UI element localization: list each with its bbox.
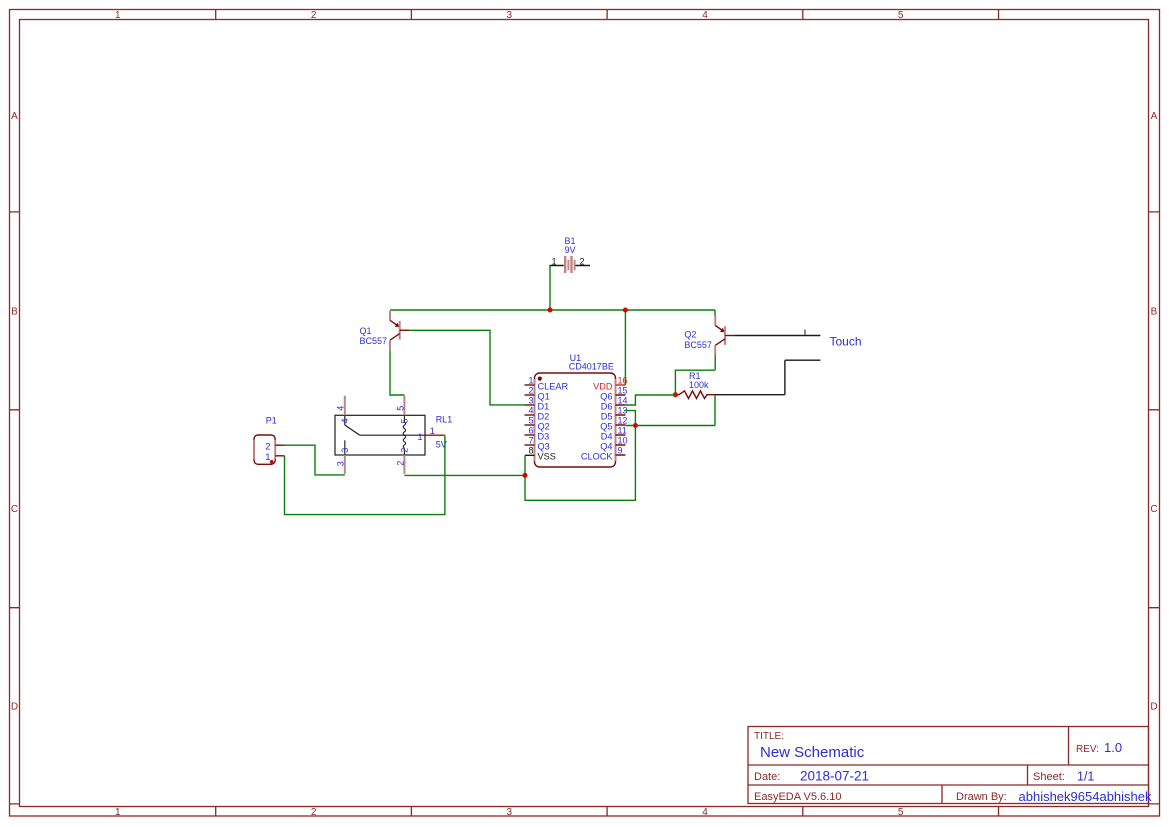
row labels left	[11, 111, 18, 712]
pin 5	[525, 424, 535, 426]
svg-text:3: 3	[528, 395, 533, 405]
svg-text:C: C	[11, 504, 18, 515]
junction q5	[633, 423, 638, 428]
svg-text:New Schematic: New Schematic	[760, 744, 865, 761]
svg-text:B: B	[11, 306, 18, 317]
row ticks left	[10, 212, 20, 804]
pin 8	[525, 454, 535, 456]
column labels top	[115, 10, 904, 21]
svg-text:A: A	[11, 111, 18, 122]
title block	[748, 727, 1152, 805]
svg-text:1: 1	[418, 432, 423, 442]
svg-text:2018-07-21: 2018-07-21	[800, 769, 869, 784]
svg-text:2: 2	[265, 442, 270, 453]
svg-text:CLEAR: CLEAR	[538, 382, 569, 392]
svg-text:D3: D3	[538, 432, 550, 442]
svg-text:VDD: VDD	[593, 382, 613, 392]
svg-text:D: D	[11, 701, 18, 712]
relay RL1	[335, 395, 452, 474]
svg-text:EasyEDA V5.6.10: EasyEDA V5.6.10	[754, 791, 841, 803]
wire Q1 base to U1 pin3	[409, 330, 524, 405]
svg-text:11: 11	[618, 425, 627, 435]
svg-text:9: 9	[618, 445, 623, 455]
wire battery drop	[549, 266, 551, 311]
touch plate 1	[735, 335, 821, 337]
svg-text:4: 4	[528, 405, 533, 415]
svg-text:1: 1	[265, 452, 270, 463]
svg-text:abhishek9654abhishek: abhishek9654abhishek	[1019, 789, 1152, 804]
junction R1 left	[673, 392, 678, 397]
wire pin13 stub	[624, 411, 635, 426]
pins 15..9	[616, 395, 626, 455]
svg-text:2: 2	[528, 385, 533, 395]
svg-text:9V: 9V	[565, 245, 576, 255]
wire pin14 jog	[625, 395, 675, 405]
svg-text:Q3: Q3	[538, 442, 550, 452]
svg-text:1: 1	[528, 375, 533, 385]
svg-text:B: B	[1151, 306, 1158, 317]
wire relay pin3 to P1 pin2	[285, 445, 345, 475]
svg-text:7: 7	[528, 435, 533, 445]
svg-text:Q1: Q1	[360, 326, 372, 336]
wire down to vss net	[525, 426, 635, 501]
transistor Q2	[684, 310, 734, 355]
svg-text:BC557: BC557	[360, 336, 388, 346]
svg-text:14: 14	[618, 395, 628, 405]
junction vss	[523, 473, 528, 478]
svg-text:3: 3	[507, 807, 513, 818]
svg-text:2: 2	[400, 448, 410, 453]
svg-text:Q1: Q1	[538, 392, 550, 402]
svg-text:Q2: Q2	[684, 330, 696, 340]
svg-text:4: 4	[336, 406, 346, 411]
svg-text:1: 1	[115, 10, 121, 21]
pin 2	[525, 394, 535, 396]
svg-text:Touch: Touch	[830, 335, 862, 349]
svg-text:D2: D2	[538, 412, 550, 422]
column ticks top	[216, 10, 999, 20]
svg-text:D4: D4	[601, 432, 613, 442]
battery B1	[550, 236, 591, 273]
column labels bottom	[115, 807, 904, 818]
wire R1 right down	[714, 395, 716, 426]
svg-text:D6: D6	[601, 402, 613, 412]
wire pin16 up	[624, 310, 626, 385]
svg-text:A: A	[1151, 111, 1158, 122]
pin 3	[525, 404, 535, 406]
svg-text:2: 2	[395, 461, 405, 466]
svg-text:Sheet:: Sheet:	[1033, 771, 1065, 783]
svg-text:12: 12	[618, 415, 628, 425]
svg-text:8: 8	[528, 445, 533, 455]
svg-text:4: 4	[340, 418, 350, 423]
wire pin12 Q5	[625, 425, 715, 427]
svg-text:BC557: BC557	[684, 340, 712, 350]
junction battery/rail	[548, 308, 553, 313]
svg-text:D1: D1	[538, 402, 550, 412]
junction pin16/rail	[623, 308, 628, 313]
svg-text:3: 3	[507, 10, 513, 21]
svg-text:15: 15	[618, 385, 628, 395]
row ticks right	[1149, 212, 1160, 804]
row labels right	[1150, 111, 1157, 712]
wire top rail	[390, 309, 715, 311]
svg-text:P1: P1	[266, 415, 277, 425]
svg-text:C: C	[1150, 504, 1157, 515]
pin 7	[525, 444, 535, 446]
svg-text:1: 1	[115, 807, 121, 818]
wire Q1 collector to relay pin5	[390, 350, 404, 395]
svg-text:TITLE:: TITLE:	[754, 731, 784, 742]
transistor Q1	[360, 311, 410, 351]
svg-text:REV:: REV:	[1076, 744, 1099, 755]
resistor R1	[675, 371, 715, 399]
svg-text:5: 5	[898, 807, 904, 818]
svg-text:Q6: Q6	[600, 392, 612, 402]
svg-text:Q5: Q5	[600, 422, 612, 432]
svg-text:5: 5	[400, 418, 410, 423]
pin 16	[616, 384, 626, 386]
touch plate 2	[715, 360, 820, 395]
svg-text:VSS: VSS	[538, 452, 556, 462]
svg-text:CLOCK: CLOCK	[581, 452, 614, 462]
svg-text:10: 10	[618, 435, 628, 445]
pin 4	[525, 414, 535, 416]
svg-text:Q2: Q2	[538, 422, 550, 432]
svg-text:Drawn By:: Drawn By:	[956, 791, 1007, 803]
svg-text:2: 2	[311, 10, 317, 21]
pin 1	[525, 384, 535, 386]
svg-text:5: 5	[395, 406, 405, 411]
pin 6	[525, 434, 535, 436]
svg-text:1.0: 1.0	[1104, 740, 1122, 755]
svg-text:D5: D5	[601, 412, 613, 422]
svg-text:1: 1	[430, 426, 435, 436]
svg-text:2: 2	[580, 257, 585, 267]
IC U1 CD4017BE	[525, 353, 628, 467]
column ticks bottom	[216, 807, 999, 817]
connector P1	[254, 415, 285, 464]
wire relay pin2	[404, 474, 525, 476]
svg-text:4: 4	[702, 807, 708, 818]
svg-text:4: 4	[702, 10, 708, 21]
svg-text:1: 1	[551, 257, 556, 267]
svg-text:3: 3	[336, 461, 346, 466]
svg-text:1/1: 1/1	[1077, 770, 1094, 784]
svg-text:2: 2	[311, 807, 317, 818]
svg-text:6: 6	[528, 425, 533, 435]
svg-text:3: 3	[340, 448, 350, 453]
svg-text:100k: 100k	[689, 380, 709, 390]
wire Q2 collector	[675, 355, 715, 395]
svg-text:5: 5	[528, 415, 533, 425]
svg-text:RL1: RL1	[436, 415, 453, 425]
svg-text:Q4: Q4	[600, 442, 612, 452]
svg-text:Date:: Date:	[754, 771, 780, 783]
wire relay pin1 to P1 pin1	[285, 435, 445, 514]
svg-text:D: D	[1150, 701, 1157, 712]
svg-text:CD4017BE: CD4017BE	[569, 361, 614, 371]
svg-text:5: 5	[898, 10, 904, 21]
